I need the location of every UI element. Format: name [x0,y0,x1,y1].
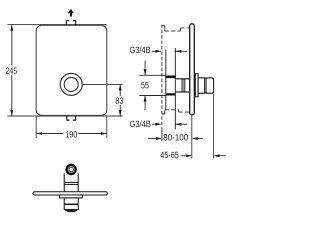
valve stem [176,78,190,80]
connector cylinder 2 [205,78,214,93]
label G3/4B bottom [130,120,150,127]
dimension 190 [35,116,37,138]
top view: cover plate bar [33,192,108,195]
front view: cover plate [36,25,107,115]
top view: connector cylinder [64,198,78,210]
top view: connector end cap [64,209,78,212]
push button outer circle [60,73,82,95]
top view: valve body stand [64,173,78,192]
valve body bottom cap (bold) [167,93,175,95]
in-wall valve body edge lines [166,48,176,130]
connector cylinder 1 [198,78,205,93]
flange disc [195,74,198,97]
centre reference line [82,84,122,86]
extension line plate front face [191,116,193,159]
push button inner circle [64,77,78,91]
dimension 55 [139,74,165,76]
hidden supply pipe bottom (dashed outline) [162,110,190,114]
dimension 80-100 [148,138,156,140]
extension line connector end [213,94,215,159]
top view: supply connection ring [67,165,76,174]
side view: finished wall line (dashed) [161,25,163,129]
top mounting tab (dashed corners) [66,21,75,25]
label G3/4B top [130,46,150,53]
cover plate (side view) [190,24,195,115]
direction arrow (black) [68,9,74,13]
top view: collar [59,195,82,198]
valve body top cap (bold) [167,75,175,78]
hidden supply pipe top (dashed outline) [162,26,190,31]
extension line top [8,24,107,26]
bottom mounting tab (dashed corners) [67,116,76,120]
stem nut (grey) [182,79,185,91]
dimension 45-65 [160,152,178,158]
dimension 83 [119,85,121,97]
wall line extension (solid) [161,128,163,142]
dimension 245 [11,25,13,116]
extension line bottom [8,115,123,117]
